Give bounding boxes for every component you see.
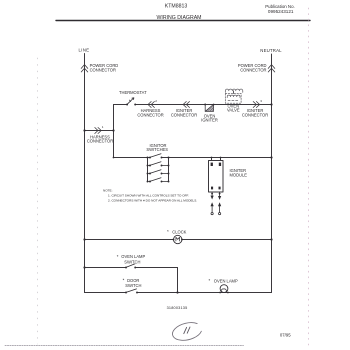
clock motor symbol <box>174 235 182 243</box>
svg-text:*: * <box>209 278 211 283</box>
junction dot switches line to neutral <box>270 156 272 158</box>
svg-text:LINE: LINE <box>79 48 90 53</box>
igniter switch ladder right vertical <box>168 158 170 182</box>
node NEUTRAL label <box>260 48 282 53</box>
junction dot branch rejoins bottom line <box>176 291 178 293</box>
manufacturer logo slashes <box>184 327 190 334</box>
svg-text:CONNECTOR: CONNECTOR <box>242 112 268 117</box>
title WIRING DIAGRAM <box>157 15 202 21</box>
svg-text:CONNECTOR: CONNECTOR <box>87 139 113 144</box>
oven valve (dual solenoid coils in dashed box) <box>225 89 243 103</box>
notes text block <box>103 188 197 202</box>
svg-text:0995243121: 0995243121 <box>268 9 294 14</box>
manufacturer logo ellipse <box>171 320 203 343</box>
power cord connector (line side) chevrons <box>81 65 88 72</box>
igniter module bottom terminals <box>211 187 213 190</box>
oven lamp switch <box>125 264 136 269</box>
wire oven lamp switch branch <box>85 268 178 293</box>
oven valve label <box>227 103 240 112</box>
svg-text:1: 1 <box>102 125 104 129</box>
junction dots module leads <box>211 157 213 159</box>
publication number block <box>265 4 295 14</box>
svg-text:SWITCH: SWITCH <box>124 259 140 264</box>
junction dot at sub-circuit vertical <box>112 129 114 131</box>
igniter module top terminals <box>211 163 213 166</box>
wire LINE vertical bus <box>84 54 86 293</box>
title model number text KTM8813 <box>165 4 188 10</box>
svg-text:*: * <box>123 278 125 283</box>
igniter connector (left) label <box>171 108 197 117</box>
igniter connector (right) label <box>242 108 268 117</box>
wire vertical from thermostat corner down to switches line <box>113 105 115 158</box>
wire bottom lamp line <box>85 292 272 294</box>
junction dot on LINE bus <box>83 129 85 131</box>
svg-text:THERMOSTAT: THERMOSTAT <box>119 90 147 95</box>
svg-text:SWITCHES: SWITCHES <box>146 147 168 152</box>
igniter connector (left) chevrons <box>183 102 189 108</box>
svg-text:NEUTRAL: NEUTRAL <box>260 48 282 53</box>
svg-text:*: * <box>167 229 169 234</box>
right page perforation dotted line <box>308 8 310 348</box>
harness connector (thermostat side) label <box>137 108 163 117</box>
igniter module leads from switches line <box>212 158 221 161</box>
oven lamp symbol <box>220 285 228 293</box>
harness connector (thermostat side) chevrons with pin 2 <box>148 102 154 108</box>
igniter module label <box>230 168 248 177</box>
igniter switch S1 on main line <box>149 154 162 159</box>
wire clock horizontal <box>85 239 272 241</box>
left page perforation dotted line <box>37 58 39 344</box>
junction dot at sub-circuit corner <box>113 157 115 159</box>
power cord connector (line side) label <box>90 63 119 72</box>
spark output leads with down arrows <box>211 192 222 200</box>
svg-text:NOTE:: NOTE: <box>103 188 113 192</box>
power cord connector (neutral side) label <box>238 63 267 72</box>
wire igniter switches horizontal <box>114 157 272 159</box>
junction dot clock line at LINE bus <box>83 238 85 240</box>
thermostat label <box>119 90 147 95</box>
harness connector (line side) label <box>87 134 113 143</box>
wire top igniter-circuit horizontal <box>114 104 272 106</box>
svg-text:3: 3 <box>260 99 262 103</box>
door switch label <box>123 278 142 288</box>
svg-text:*: * <box>117 254 119 259</box>
junction dot lamp-switch branch at LINE bus <box>83 266 85 268</box>
igniter switch S4 rung <box>147 178 170 183</box>
svg-text:MODULE: MODULE <box>230 172 248 177</box>
svg-text:SWITCH: SWITCH <box>125 283 141 288</box>
oven lamp switch label <box>117 254 146 264</box>
junction dots ladder top <box>147 157 149 159</box>
wire NEUTRAL vertical bus <box>271 54 273 293</box>
igniter connector (right) chevrons with pin 3 <box>253 102 259 108</box>
svg-text:2. CONNECTORS WITH # DO NOT AP: 2. CONNECTORS WITH # DO NOT APPEAR ON AL… <box>108 199 197 203</box>
node LINE label <box>79 48 90 53</box>
harness connector (line side) chevrons with pin 1 <box>95 128 101 134</box>
door switch <box>125 289 138 294</box>
junction dot clock line at NEUTRAL bus <box>270 238 272 240</box>
date code text <box>280 332 291 337</box>
junction dot at oven igniter left lead <box>204 104 206 106</box>
igniter switch ladder left vertical <box>147 158 149 182</box>
igniter switch S2 rung <box>147 162 170 167</box>
spark electrodes with up arrows <box>211 202 222 214</box>
svg-text:CLOCK: CLOCK <box>172 230 186 235</box>
svg-text:IGNITER: IGNITER <box>201 118 218 123</box>
header rule line <box>56 20 310 22</box>
igniter module box U1 <box>209 161 224 193</box>
wire harness jumper from LINE bus to sub-circuit <box>85 130 114 132</box>
svg-text:CONNECTOR: CONNECTOR <box>90 67 116 72</box>
part number text <box>167 306 188 310</box>
clock label <box>167 229 187 234</box>
oven igniter (hot surface igniter triangle) <box>205 104 214 112</box>
svg-text:KTM8813: KTM8813 <box>165 4 188 10</box>
svg-text:VALVE: VALVE <box>227 107 240 112</box>
igniter switch S3 rung <box>147 170 170 175</box>
svg-text:318003135: 318003135 <box>167 306 188 310</box>
oven lamp label <box>209 278 238 283</box>
svg-text:07/95: 07/95 <box>280 332 291 337</box>
bottom tear dashed line <box>5 345 244 347</box>
svg-text:2: 2 <box>155 99 157 103</box>
svg-text:1. CIRCUIT SHOWN WITH ALL CONT: 1. CIRCUIT SHOWN WITH ALL CONTROLS SET T… <box>108 194 189 198</box>
thermostat switch <box>126 98 136 106</box>
svg-text:CONNECTOR: CONNECTOR <box>137 112 163 117</box>
svg-text:CONNECTOR: CONNECTOR <box>240 67 266 72</box>
power cord connector (neutral side) chevrons <box>268 65 275 72</box>
junction dot igniter line to neutral <box>270 103 272 105</box>
igniter switches label <box>146 143 168 152</box>
svg-text:CONNECTOR: CONNECTOR <box>171 112 197 117</box>
svg-text:OVEN LAMP: OVEN LAMP <box>214 278 238 283</box>
oven igniter label <box>201 113 218 122</box>
